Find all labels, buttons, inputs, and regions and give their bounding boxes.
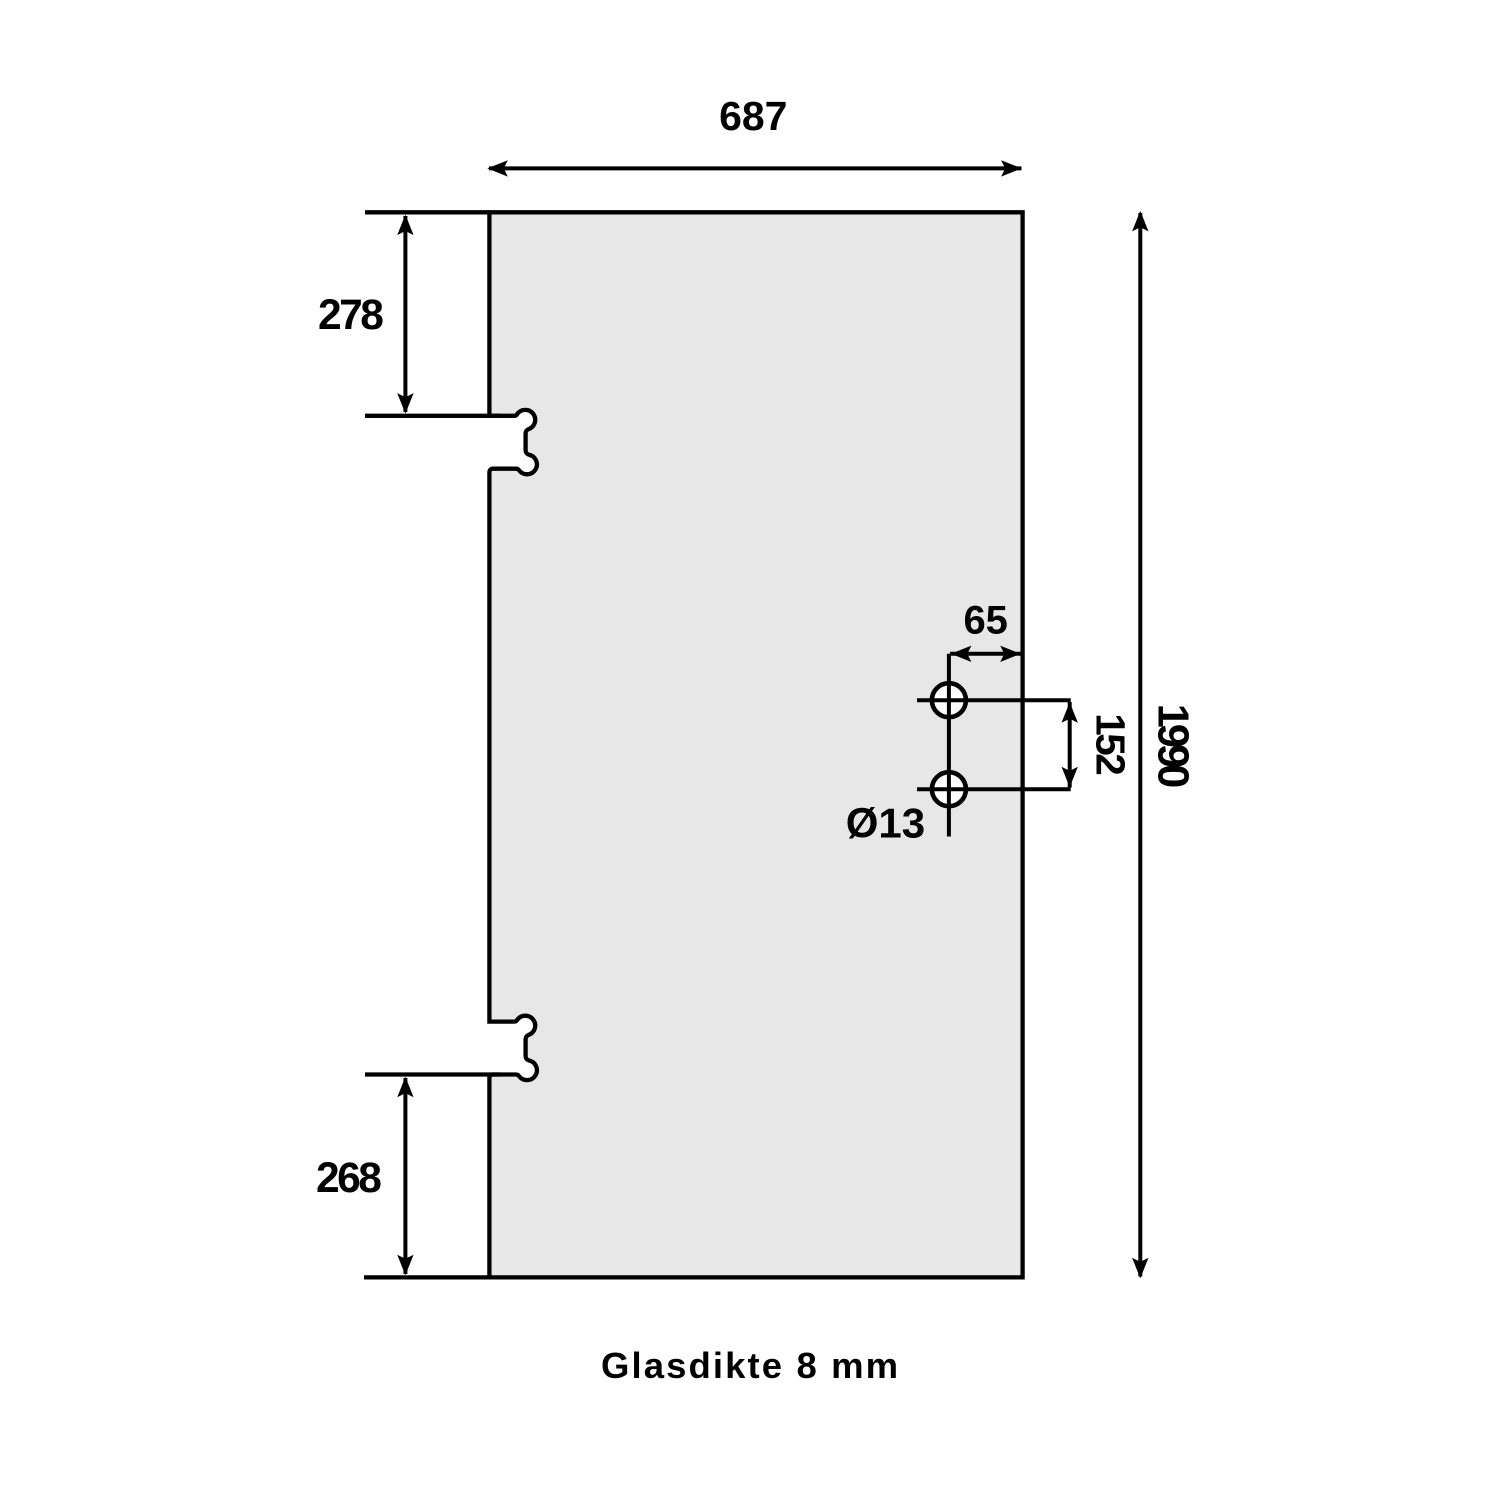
extension line bottom: [364, 1275, 489, 1279]
extension line at top notch: [365, 414, 500, 418]
hole H2 centerline horizontal: [917, 787, 1071, 791]
svg-text:Ø13: Ø13: [846, 800, 925, 847]
svg-text:1990: 1990: [1149, 704, 1197, 788]
hole H1 centerline horizontal: [917, 698, 1071, 702]
dimension 152 line: [1068, 702, 1072, 788]
svg-text:65: 65: [963, 599, 1008, 643]
hole centerline vertical: [947, 654, 951, 837]
dimension 687 line (top width): [489, 166, 1022, 170]
dimension 65 line: [950, 652, 1022, 656]
dimension 268 line: [403, 1078, 407, 1274]
svg-text:Glasdikte 8 mm: Glasdikte 8 mm: [601, 1345, 900, 1386]
svg-text:152: 152: [1087, 713, 1133, 774]
svg-text:278: 278: [318, 292, 383, 339]
svg-text:268: 268: [316, 1155, 381, 1202]
hole H2 (bottom, Ø13): [932, 772, 966, 806]
svg-text:687: 687: [719, 93, 787, 139]
extension line at bottom notch: [365, 1072, 500, 1076]
dimension 1990 line (right height): [1138, 213, 1142, 1277]
glass panel with two hinge cutouts: [489, 212, 1022, 1277]
extension line top (left of panel): [365, 210, 489, 214]
hole H1 (top, Ø13): [932, 683, 966, 717]
dimension 278 line: [403, 216, 407, 412]
